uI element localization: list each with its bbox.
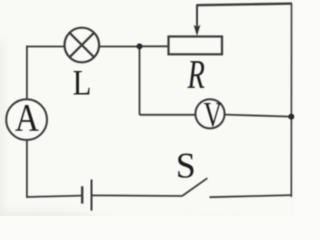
wire: rheostat left terminal to node	[140, 45, 169, 47]
wire: left vertical upper (corner to ammeter)	[26, 46, 28, 100]
wire: node down to voltmeter row	[139, 47, 141, 115]
wire: bottom-left horizontal to battery	[26, 196, 82, 197]
wire: battery to switch	[92, 194, 183, 197]
label L	[74, 71, 90, 94]
rheostat wiper arrowhead	[194, 25, 201, 36]
wire: to voltmeter left terminal	[140, 114, 196, 116]
rheostat wiper stem	[196, 5, 198, 29]
wire: lamp right to node	[99, 46, 139, 48]
switch S lever	[182, 178, 207, 196]
label R	[187, 61, 204, 88]
wire: voltmeter right terminal to right vertical	[225, 115, 291, 117]
battery cell: long positive plate	[91, 180, 93, 211]
wire: right vertical	[290, 4, 292, 197]
label S	[178, 154, 193, 178]
wire: top-left horizontal to lamp	[26, 46, 65, 48]
wire: top-right horizontal to wiper	[197, 4, 292, 6]
battery cell: short negative plate	[81, 186, 83, 203]
rheostat R body	[169, 37, 223, 55]
node junction dot (top)	[137, 43, 143, 49]
wire: switch right contact to bottom-right corner	[210, 195, 292, 197]
voltmeter V	[195, 99, 224, 128]
wire: left vertical lower (ammeter to bottom corner)	[26, 140, 28, 198]
ammeter A	[6, 99, 47, 140]
lamp L (circle with X)	[65, 28, 100, 63]
node junction dot (right)	[288, 114, 294, 120]
